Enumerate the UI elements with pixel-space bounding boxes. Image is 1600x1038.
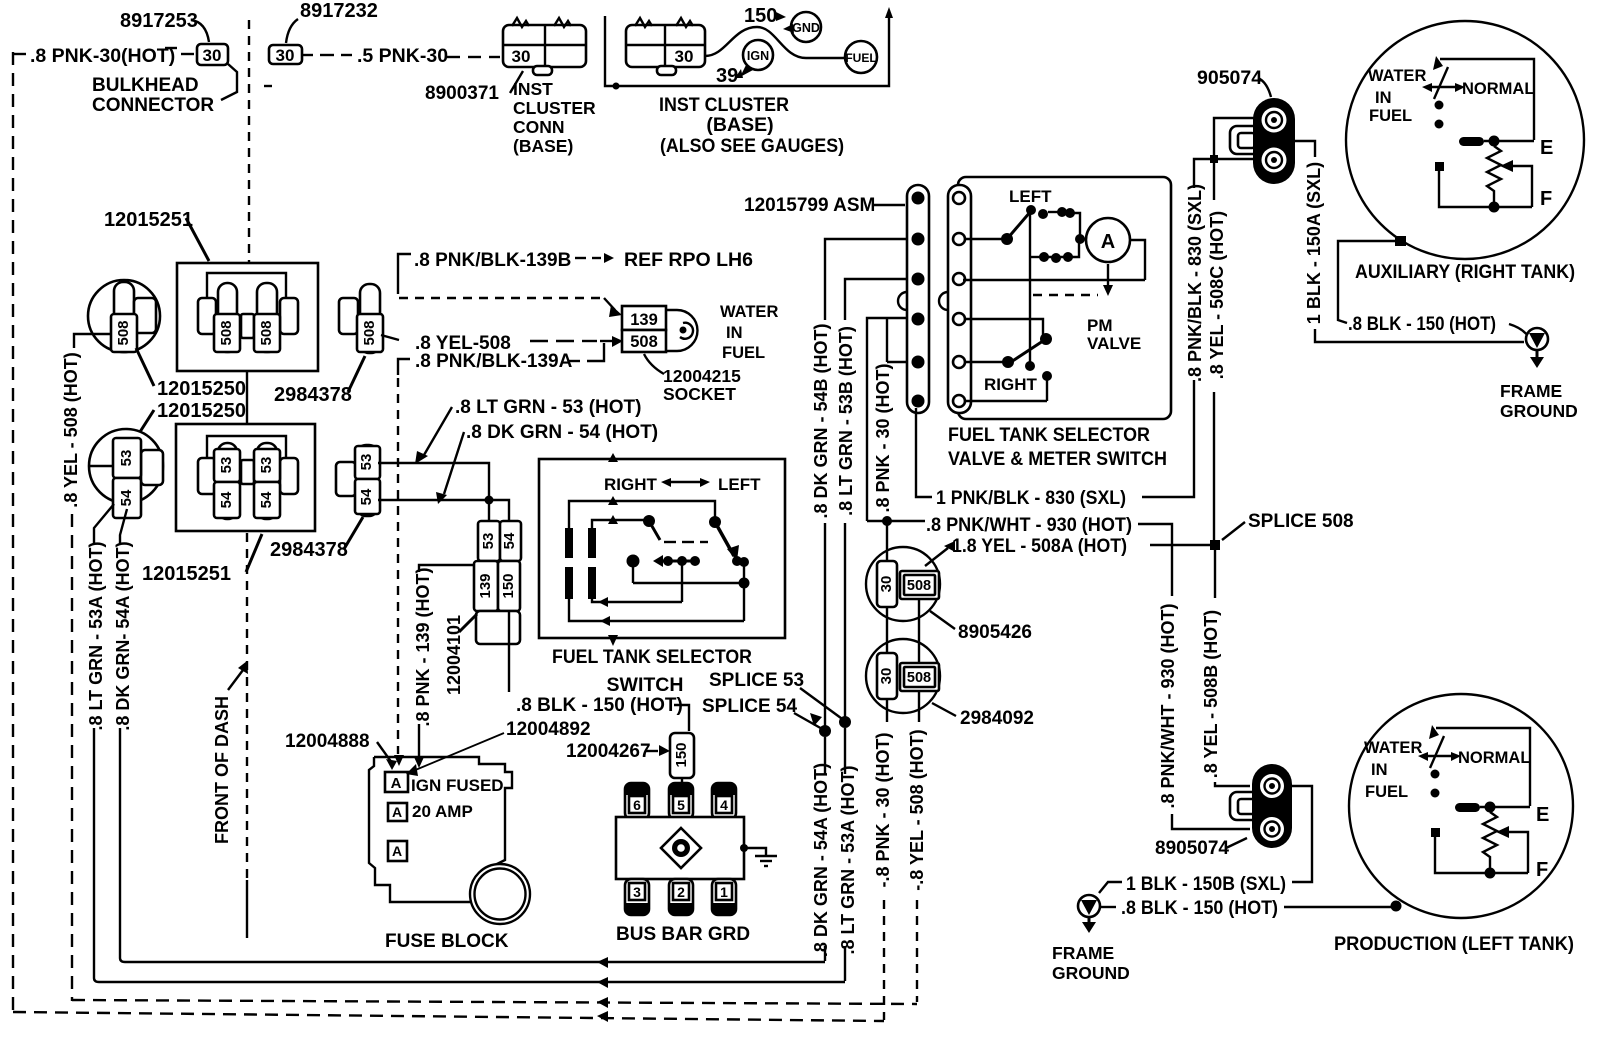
svg-text:.8 BLK - 150 (HOT): .8 BLK - 150 (HOT) <box>516 695 683 716</box>
svg-text:REF RPO LH6: REF RPO LH6 <box>624 249 753 271</box>
switch left-tank contacts <box>966 205 1086 263</box>
wire dashed 30 to bottom run <box>883 900 885 1020</box>
svg-text:508: 508 <box>115 320 132 345</box>
svg-text:.8 YEL - 508B (HOT): .8 YEL - 508B (HOT) <box>1201 610 1221 778</box>
label 12004892 <box>406 719 591 776</box>
svg-text:SPLICE 508: SPLICE 508 <box>1248 511 1354 532</box>
svg-text:A: A <box>392 804 402 820</box>
svg-text:8900371: 8900371 <box>425 83 499 104</box>
svg-text:GROUND: GROUND <box>1052 963 1130 983</box>
svg-text:.8 PNK-30(HOT): .8 PNK-30(HOT) <box>30 45 175 67</box>
wire 508B to lower connector <box>1215 782 1250 786</box>
label FUEL TANK SELECTOR SWITCH <box>552 646 752 696</box>
wire dashed 508 bottom run <box>72 997 917 1008</box>
node splice 53 <box>839 716 851 728</box>
svg-text:30: 30 <box>878 576 895 593</box>
wire 508 below circle <box>918 691 920 722</box>
svg-text:.8 PNK - 139 (HOT): .8 PNK - 139 (HOT) <box>413 567 433 726</box>
svg-text:FRAME: FRAME <box>1500 381 1562 401</box>
switch right-tank contacts <box>966 319 1052 401</box>
label 12004101 <box>444 614 477 695</box>
label 150 <box>744 5 786 27</box>
svg-text:2: 2 <box>677 884 685 900</box>
wire selector outer loop <box>569 496 715 529</box>
wire 1 BLK - 150A to frame ground <box>1291 141 1524 342</box>
svg-text:150: 150 <box>744 5 777 27</box>
connector U2 INST CLUSTER CONN (BASE) <box>503 18 586 75</box>
wire selector inner top <box>592 515 645 529</box>
wire dashed front of dash line lower <box>246 533 248 880</box>
wire dashed bulkhead boundary (upper) <box>248 20 250 262</box>
label 8900371 <box>425 71 523 104</box>
wire sender bottom (aux) <box>1435 162 1532 207</box>
connector 905074 (tank unit, right) <box>1230 98 1295 184</box>
wire 830 lower vertical to PM valve <box>1142 380 1194 497</box>
contact bars selector <box>565 528 596 599</box>
wire label .8 PNK/WHT - 930 (HOT) horizontal <box>926 515 1172 596</box>
wire label .8 PNK/BLK-139A <box>398 343 604 375</box>
label SPLICE 54 <box>702 696 824 730</box>
wire 39 from cluster connector to gauges <box>705 27 844 58</box>
svg-text:8905426: 8905426 <box>958 622 1032 643</box>
svg-text:FUSE BLOCK: FUSE BLOCK <box>385 931 509 952</box>
contact cluster center <box>627 555 701 584</box>
label INST CLUSTER CONN (BASE) <box>513 79 596 156</box>
svg-text:PM: PM <box>1087 316 1113 335</box>
svg-text:508: 508 <box>218 320 235 345</box>
wire label .8 LT GRN - 53 (HOT) <box>415 397 641 464</box>
wire dashed 508 left vertical <box>71 514 73 1001</box>
connector 30 box (bulkhead, pin 30) <box>197 44 228 65</box>
wire H3 <box>569 598 744 626</box>
svg-text:F: F <box>1540 188 1552 210</box>
svg-text:IN: IN <box>1371 761 1388 779</box>
wire label .8 YEL-508 <box>381 333 623 354</box>
svg-text:508: 508 <box>630 333 658 351</box>
svg-text:GND: GND <box>792 21 820 35</box>
label 12015799 ASM <box>744 195 905 216</box>
connector 2984378 (53/54 single) <box>336 445 380 516</box>
wire dashed 30 left border <box>13 52 26 1012</box>
wire 54A left drop <box>113 509 825 968</box>
label 8905426 <box>930 611 1032 643</box>
label FUEL TANK SELECTOR VALVE & METER SWITCH <box>948 424 1167 470</box>
wire upper pin to 508C <box>1214 118 1258 159</box>
svg-text:53: 53 <box>480 533 497 550</box>
svg-text:8917253: 8917253 <box>120 10 198 32</box>
svg-text:GROUND: GROUND <box>1500 401 1578 421</box>
svg-text:F: F <box>1536 859 1548 881</box>
svg-text:12015251: 12015251 <box>142 563 231 585</box>
bus bar ground pin 3 <box>625 879 649 915</box>
wire .8 PNK - 139 from 139 pin to fuse <box>413 565 474 768</box>
svg-text:54: 54 <box>501 532 518 549</box>
ground frame ground (top right) <box>1526 328 1548 368</box>
wire 508B from splice <box>1214 550 1216 598</box>
svg-text:1 PNK/BLK - 830 (SXL): 1 PNK/BLK - 830 (SXL) <box>936 488 1126 509</box>
svg-text:IGN: IGN <box>747 49 769 63</box>
svg-text:.8 LT GRN - 53A (HOT): .8 LT GRN - 53A (HOT) <box>838 765 858 954</box>
wire 830 from pin6 <box>916 408 932 497</box>
bus bar ground pin 5 <box>669 783 693 819</box>
svg-text:A: A <box>391 775 402 792</box>
wire label .8 DK GRN - 54 (HOT) <box>436 422 658 504</box>
bus bar ground pin 4 <box>712 783 736 819</box>
switch wiper left-side <box>709 516 742 566</box>
node splice 54 <box>819 725 831 737</box>
box FUEL TANK SELECTOR VALVE & METER SWITCH <box>958 177 1171 419</box>
svg-text:12004215: 12004215 <box>663 366 741 386</box>
connector 12004101 pins 53/54/139/150 <box>474 521 521 644</box>
svg-text:1 BLK - 150B (SXL): 1 BLK - 150B (SXL) <box>1126 874 1286 895</box>
wire inst cluster enclosure bracket <box>605 7 893 90</box>
wire dashed 139A down to fuse block <box>394 378 404 766</box>
svg-text:FUEL: FUEL <box>845 51 876 65</box>
connector U3 INST CLUSTER (BASE) <box>626 18 705 75</box>
svg-text:VALVE: VALVE <box>1087 334 1141 353</box>
wiper arrow (production) <box>1496 826 1528 873</box>
svg-text:.8 LT GRN - 53A (HOT): .8 LT GRN - 53A (HOT) <box>86 541 106 730</box>
label WATER IN FUEL (aux) <box>1368 67 1426 125</box>
svg-text:BULKHEAD: BULKHEAD <box>92 75 199 96</box>
switch water-in-fuel (aux) <box>1422 56 1465 129</box>
wire 53A left drop <box>86 504 845 988</box>
svg-text:508: 508 <box>907 578 931 594</box>
svg-text:1.8 YEL - 508A (HOT): 1.8 YEL - 508A (HOT) <box>952 536 1127 557</box>
wire label .8 DK GRN - 54A (HOT) right <box>811 737 831 961</box>
svg-text:.8 PNK/BLK-139B: .8 PNK/BLK-139B <box>414 250 571 271</box>
svg-text:20 AMP: 20 AMP <box>412 802 473 821</box>
node junction at connector wires <box>1210 155 1218 163</box>
label FRONT OF DASH <box>212 661 248 844</box>
connector 8905074 (tank unit, left) <box>1230 764 1292 848</box>
label WATER IN FUEL (socket) <box>720 303 778 362</box>
resistor sender (aux) <box>1487 146 1501 213</box>
svg-text:8905074: 8905074 <box>1155 838 1229 859</box>
svg-text:54: 54 <box>218 491 235 508</box>
svg-text:139: 139 <box>477 573 494 598</box>
wire center drop <box>681 561 683 602</box>
label REF RPO LH6 <box>575 249 753 271</box>
svg-text:E: E <box>1536 804 1549 826</box>
svg-text:INST CLUSTER: INST CLUSTER <box>659 94 789 116</box>
label PM VALVE <box>1087 316 1141 353</box>
label 12015250 x2 <box>136 348 246 400</box>
wire lower pin to 830 <box>1194 159 1255 188</box>
svg-text:FRAME: FRAME <box>1052 943 1114 963</box>
wire 54B lower to splice <box>824 523 826 728</box>
wire 54B from pin2 <box>825 239 908 320</box>
svg-text:SOCKET: SOCKET <box>663 384 736 404</box>
svg-text:IGN FUSED: IGN FUSED <box>411 776 504 795</box>
label FRAME GROUND (bottom) <box>1052 943 1130 983</box>
fuse block outline <box>369 757 530 924</box>
connector circle 2984092 <box>866 639 940 713</box>
svg-text:12004101: 12004101 <box>444 615 464 695</box>
svg-text:5: 5 <box>677 797 685 813</box>
wire dashed 139B to socket <box>399 298 622 317</box>
wire 930 to lower connector <box>1172 814 1250 829</box>
resistor sender (production) <box>1483 812 1497 879</box>
wire aux to .8 BLK-150 <box>1338 241 1397 323</box>
svg-text:12004267: 12004267 <box>566 741 651 762</box>
label WATER IN FUEL (production) <box>1364 739 1422 801</box>
svg-text:.5 PNK-30: .5 PNK-30 <box>357 45 448 67</box>
svg-text:2984378: 2984378 <box>270 539 348 561</box>
label 8905074 <box>1155 838 1247 859</box>
svg-text:RIGHT: RIGHT <box>984 375 1038 394</box>
svg-text:508: 508 <box>907 670 931 686</box>
svg-text:508: 508 <box>258 320 275 345</box>
svg-text:54: 54 <box>358 488 375 505</box>
connector balloon 12015250 (508) <box>88 280 160 352</box>
bus bar ground body <box>616 817 744 879</box>
wire sender bottom (production) <box>1431 828 1528 873</box>
svg-text:FUEL: FUEL <box>722 344 765 362</box>
node GND <box>783 12 821 42</box>
label 12015251 lower <box>142 534 262 585</box>
svg-text:A: A <box>392 843 402 859</box>
svg-text:.8 PNK/WHT - 930 (HOT): .8 PNK/WHT - 930 (HOT) <box>1158 603 1178 808</box>
svg-text:30: 30 <box>878 668 895 685</box>
svg-text:905074: 905074 <box>1197 67 1262 89</box>
label 8917232 <box>286 0 378 43</box>
circle gauge PRODUCTION (LEFT TANK) <box>1349 694 1573 918</box>
svg-text:8917232: 8917232 <box>300 0 378 22</box>
bus bar ground pin 6 <box>625 783 649 819</box>
label 1 BLK - 150B (SXL) <box>1099 874 1286 895</box>
svg-text:30: 30 <box>512 47 531 66</box>
label SPLICE 508 <box>1222 511 1354 540</box>
svg-text:4: 4 <box>720 797 728 813</box>
svg-text:WATER: WATER <box>1364 739 1422 757</box>
label 12015251 upper <box>104 209 209 261</box>
svg-text:12015251: 12015251 <box>104 209 193 231</box>
label FRAME GROUND (top right) <box>1500 381 1578 421</box>
svg-text:FRONT OF DASH: FRONT OF DASH <box>212 696 232 844</box>
svg-text:(ALSO SEE GAUGES): (ALSO SEE GAUGES) <box>660 135 844 157</box>
svg-text:12015799 ASM: 12015799 ASM <box>744 195 875 216</box>
svg-text:(BASE): (BASE) <box>513 136 573 156</box>
svg-text:12015250: 12015250 <box>157 400 246 422</box>
svg-text:FUEL TANK SELECTOR: FUEL TANK SELECTOR <box>948 424 1150 446</box>
label 39 <box>716 65 743 87</box>
svg-text:SPLICE 53: SPLICE 53 <box>709 670 804 691</box>
linkage dashed to meter <box>1033 264 1113 296</box>
svg-text:.8 PNK - 30 (HOT): .8 PNK - 30 (HOT) <box>873 363 893 512</box>
wire label .8 PNK/BLK-139B with bracket <box>398 250 571 294</box>
svg-text:139: 139 <box>630 311 658 329</box>
wire H1 <box>633 582 744 584</box>
label 905074 <box>1197 67 1271 97</box>
svg-text:.8 LT GRN - 53B (HOT): .8 LT GRN - 53B (HOT) <box>836 326 856 516</box>
label INST CLUSTER (BASE) ALSO SEE GAUGES <box>659 94 844 157</box>
svg-text:12004888: 12004888 <box>285 731 370 752</box>
svg-text:150: 150 <box>500 573 517 598</box>
wire label .8 BLK - 150 (HOT) upper <box>1348 313 1528 336</box>
svg-text:(BASE): (BASE) <box>706 114 773 136</box>
label 2984378 lower <box>270 517 363 561</box>
svg-text:.8 YEL - 508 (HOT): .8 YEL - 508 (HOT) <box>61 352 81 507</box>
svg-text:E: E <box>1540 137 1553 159</box>
label 8917253 <box>120 10 209 42</box>
wire 150B from connector right <box>1290 786 1312 882</box>
connector box 12015251 upper (508 pair) <box>177 263 318 371</box>
bus bar ground pin 2 <box>669 879 693 915</box>
svg-text:30: 30 <box>203 46 222 65</box>
wire 508C vertical segment <box>1213 159 1215 200</box>
svg-text:30: 30 <box>276 46 295 65</box>
svg-text:1: 1 <box>720 884 728 900</box>
svg-text:IN: IN <box>726 324 743 342</box>
svg-text:508: 508 <box>361 320 378 345</box>
svg-text:SPLICE 54: SPLICE 54 <box>702 696 797 717</box>
label 12004267 <box>566 741 670 762</box>
svg-text:53: 53 <box>118 450 135 467</box>
fuse A2 20 AMP <box>388 803 407 821</box>
svg-text:.8 YEL - 508C (HOT): .8 YEL - 508C (HOT) <box>1207 211 1227 379</box>
svg-text:54: 54 <box>258 491 275 508</box>
svg-text:3: 3 <box>633 884 641 900</box>
wire 508 balloon hook to label <box>74 334 111 348</box>
svg-text:SWITCH: SWITCH <box>607 674 684 696</box>
svg-text:30: 30 <box>675 47 694 66</box>
socket 12004215 pin 508 <box>622 330 666 352</box>
wire dashes .8 PNK-30 into bulkhead box <box>165 48 194 54</box>
connector 150 inline <box>670 733 694 788</box>
fuse A1 IGN FUSED <box>385 772 408 792</box>
label 12004888 <box>285 731 397 770</box>
ground symbol at bus bar <box>740 844 777 866</box>
svg-text:A: A <box>1101 231 1115 253</box>
svg-text:.8 DK GRN- 54A (HOT): .8 DK GRN- 54A (HOT) <box>113 541 133 730</box>
svg-text:WATER: WATER <box>720 303 778 321</box>
svg-text:AUXILIARY (RIGHT TANK): AUXILIARY (RIGHT TANK) <box>1355 261 1575 283</box>
svg-text:39: 39 <box>716 65 738 87</box>
connector balloon 12015250 (53/54) <box>89 429 163 518</box>
wire 30 to junction <box>867 516 925 561</box>
ground frame ground (bottom left) <box>1078 895 1100 933</box>
svg-text:INST: INST <box>513 79 553 99</box>
wire right contact column <box>739 557 750 621</box>
svg-text:LEFT: LEFT <box>718 475 761 494</box>
wire 30 below circle <box>886 699 888 722</box>
connector 30 box (inst side, pin 30) <box>264 45 302 86</box>
svg-text:12015250: 12015250 <box>157 378 246 400</box>
wire label .8 LT GRN - 53A (HOT) right <box>838 728 858 981</box>
switch water-in-fuel (production) <box>1418 725 1461 798</box>
svg-text:WATER: WATER <box>1368 67 1426 85</box>
label BULKHEAD CONNECTOR <box>92 64 237 116</box>
svg-text:BUS BAR GRD: BUS BAR GRD <box>616 924 750 945</box>
connector strip 12015799 ASM <box>898 185 929 413</box>
wire label .8 YEL - 508A (HOT) <box>925 536 1210 566</box>
connector circle 8905426 <box>866 547 940 621</box>
lamp water-in-fuel bulb loop <box>666 310 697 351</box>
svg-text:FUEL TANK SELECTOR: FUEL TANK SELECTOR <box>552 646 752 668</box>
connector box 12015251 lower (53/54 pair) <box>176 424 315 531</box>
wire 508C lower vertical to splice 508 <box>1213 392 1215 548</box>
connector 2984378 (508 single) <box>339 284 383 353</box>
wire .5 PNK-30 with dashes <box>302 45 500 67</box>
switch wiper right-side <box>643 515 708 542</box>
wiper arrow (aux) <box>1500 160 1532 207</box>
connector strip valve side <box>939 185 971 413</box>
wire label .8 BLK - 150 (HOT) lower <box>1101 898 1402 919</box>
svg-text:54: 54 <box>118 489 135 506</box>
fuse A3 <box>388 841 407 861</box>
svg-text:1 BLK - 150A (SXL): 1 BLK - 150A (SXL) <box>1304 162 1324 324</box>
svg-text:.8 BLK - 150 (HOT): .8 BLK - 150 (HOT) <box>1348 313 1496 335</box>
label 2984378 upper <box>274 356 365 406</box>
wire dashed 30 bottom run <box>13 1011 884 1022</box>
bus bar ground pin 1 <box>712 879 736 915</box>
svg-text:NORMAL: NORMAL <box>1462 80 1534 98</box>
svg-text:-.8 PNK - 30 (HOT): -.8 PNK - 30 (HOT) <box>873 732 893 887</box>
sender float bar (production) <box>1455 802 1530 813</box>
wire linkage vertical <box>1029 211 1031 366</box>
svg-text:FUEL: FUEL <box>1369 107 1412 125</box>
svg-text:.8 LT GRN - 53 (HOT): .8 LT GRN - 53 (HOT) <box>455 397 641 418</box>
svg-text:VALVE & METER SWITCH: VALVE & METER SWITCH <box>948 448 1167 470</box>
svg-text:6: 6 <box>633 797 641 813</box>
svg-text:53: 53 <box>218 457 235 474</box>
svg-text:CONNECTOR: CONNECTOR <box>92 95 214 116</box>
circle gauge AUXILIARY (RIGHT TANK) <box>1346 21 1584 259</box>
switch FUEL TANK SELECTOR SWITCH box <box>539 453 785 646</box>
wire between boxes (bulkhead line) <box>246 371 248 424</box>
svg-text:2984378: 2984378 <box>274 384 352 406</box>
wire sender top rect (aux) <box>1440 59 1534 140</box>
svg-text:12004892: 12004892 <box>506 719 591 740</box>
wire sender top rect (production) <box>1436 728 1530 806</box>
label 12004215 SOCKET <box>644 354 741 404</box>
wire 53 row <box>378 463 489 521</box>
svg-text:53: 53 <box>358 454 375 471</box>
socket 12004215 pin 139 <box>622 306 666 330</box>
svg-text:2984092: 2984092 <box>960 708 1034 729</box>
node splice 508 <box>1210 540 1220 550</box>
wire .8 BLK - 150 from 150 pin <box>509 611 689 731</box>
wire H2 <box>592 597 682 607</box>
svg-text:.8 DK GRN - 54A (HOT): .8 DK GRN - 54A (HOT) <box>811 763 831 957</box>
svg-text:CLUSTER: CLUSTER <box>513 98 596 118</box>
wire dashed 508 to bottom run <box>916 900 918 1002</box>
svg-text:-.8 YEL - 508 (HOT): -.8 YEL - 508 (HOT) <box>907 729 927 890</box>
node FUEL <box>845 41 877 73</box>
svg-text:.8 PNK/BLK-139A: .8 PNK/BLK-139A <box>415 351 573 372</box>
svg-text:.8 PNK/WHT - 930 (HOT): .8 PNK/WHT - 930 (HOT) <box>926 515 1132 536</box>
svg-text:PRODUCTION (LEFT TANK): PRODUCTION (LEFT TANK) <box>1334 933 1574 955</box>
node 54 junction <box>485 496 494 505</box>
wire 53B lower to splice <box>844 523 846 719</box>
meter A <box>1086 218 1130 262</box>
svg-text:FUEL: FUEL <box>1365 783 1408 801</box>
wire 30 from pin4/pin5 <box>867 318 908 521</box>
wire between inline connectors <box>887 599 919 663</box>
sender float bar (aux) <box>1459 136 1534 147</box>
label SPLICE 53 <box>709 670 845 721</box>
node wire junction on aux circle <box>1395 236 1406 246</box>
svg-text:LEFT: LEFT <box>1009 187 1052 206</box>
svg-text:150: 150 <box>673 742 690 767</box>
svg-text:CONN: CONN <box>513 117 565 137</box>
label 2984092 <box>932 703 1034 729</box>
svg-text:.8 PNK/BLK - 830 (SXL): .8 PNK/BLK - 830 (SXL) <box>1185 184 1205 382</box>
svg-text:.8 BLK - 150 (HOT): .8 BLK - 150 (HOT) <box>1121 898 1278 919</box>
wire meter to pin3 <box>1130 240 1145 280</box>
wire 53B from pin3 <box>845 279 908 320</box>
